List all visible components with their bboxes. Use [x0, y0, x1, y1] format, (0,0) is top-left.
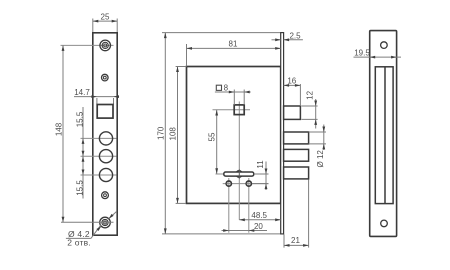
mortise slot [375, 67, 393, 204]
dimension 11 [252, 160, 269, 190]
svg-text:8: 8 [224, 84, 229, 93]
deadbolt 2 [284, 149, 309, 161]
spindle square hole [234, 105, 244, 115]
square cutout [97, 105, 113, 119]
spindle square centerlines [213, 102, 251, 220]
upper small hole [102, 74, 109, 81]
dimension 16 [284, 77, 301, 106]
svg-text:12: 12 [306, 90, 315, 99]
svg-text:170: 170 [156, 126, 165, 140]
key cylinder hub [236, 171, 242, 177]
svg-text:16: 16 [287, 77, 296, 86]
lower small hole [102, 192, 109, 199]
key bit bar [224, 172, 254, 176]
lock body outline [187, 67, 281, 204]
dimension 148 [54, 45, 113, 222]
top screw hole [100, 40, 111, 51]
dimension 170 [156, 33, 166, 234]
key bit centerline [216, 173, 269, 175]
dimension square 8 [215, 84, 251, 105]
top screw hole [381, 42, 388, 49]
top screw hole centerline [61, 44, 114, 46]
post hole left [226, 178, 231, 233]
svg-text:25: 25 [101, 13, 110, 22]
svg-text:81: 81 [229, 39, 238, 48]
svg-text:21: 21 [291, 236, 300, 245]
dimension 20 [222, 222, 268, 232]
post holes centerline [223, 183, 269, 185]
svg-text:11: 11 [256, 160, 265, 169]
post hole right [246, 178, 251, 233]
faceplate strip edge-on [281, 33, 284, 234]
bottom screw hole [100, 217, 111, 228]
dimension 21 [284, 180, 309, 248]
dimension 12 (latch height) [302, 90, 318, 128]
dimension diameter 12 (deadbolt) [309, 125, 326, 168]
dimension 55 [207, 110, 218, 174]
deadbolt 1 [284, 132, 309, 144]
faceplate outline [93, 33, 117, 235]
dimension 48.5 [239, 211, 280, 221]
svg-text:55: 55 [207, 132, 216, 141]
strike plate outline [370, 31, 397, 237]
dimension 81 [187, 39, 281, 66]
svg-text:20: 20 [254, 222, 263, 231]
deadbolt 3 [284, 167, 309, 179]
dimension 25 [93, 13, 117, 32]
svg-text:14.7: 14.7 [74, 88, 90, 97]
dimension 108 [169, 67, 186, 204]
svg-text:15.5: 15.5 [76, 180, 85, 196]
svg-text:15.5: 15.5 [76, 111, 85, 127]
dimensions 15.5 / 15.5 [76, 107, 85, 199]
extension line bottom (170) [162, 233, 284, 235]
svg-text:108: 108 [169, 127, 178, 141]
svg-text:2 отв.: 2 отв. [67, 238, 91, 248]
dimension 19.5 [354, 48, 402, 58]
dimension 2.5 [272, 32, 303, 42]
svg-text:48.5: 48.5 [251, 211, 267, 220]
hole circle 2 [99, 150, 112, 163]
hole centerlines [81, 137, 117, 139]
latch bolt [284, 106, 301, 119]
bottom screw hole [381, 220, 388, 227]
svg-text:2.5: 2.5 [289, 32, 301, 41]
hole circle 3 [99, 168, 112, 181]
extension line top (170) [162, 32, 284, 34]
svg-text:148: 148 [54, 122, 63, 136]
callout diameter 4.2, 2 holes [66, 211, 117, 247]
dimension 14.7 [74, 88, 119, 105]
hole circle 1 [99, 132, 112, 145]
svg-text:Ø 12: Ø 12 [316, 150, 325, 168]
svg-text:19.5: 19.5 [354, 48, 370, 57]
